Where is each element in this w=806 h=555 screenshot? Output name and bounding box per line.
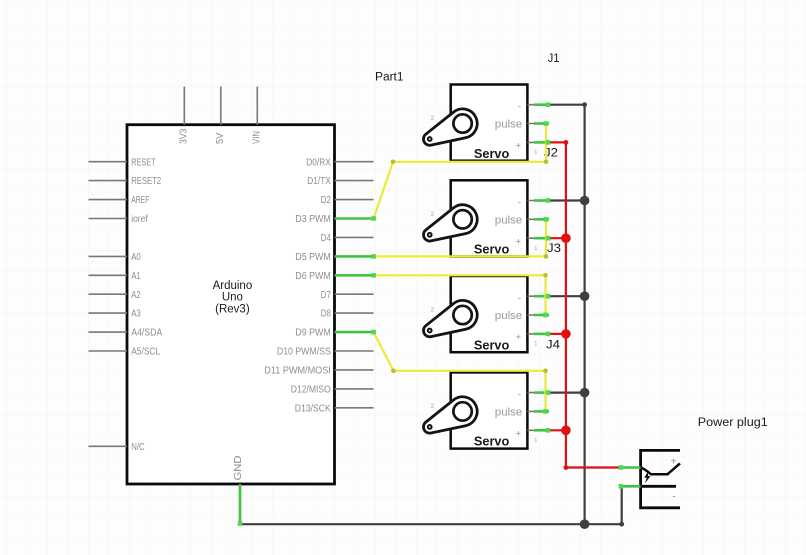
label Arduino Uno (Rev3) [213, 280, 253, 315]
svg-text:N/C: N/C [131, 442, 145, 453]
pin A2 [89, 290, 142, 301]
pin D7 [321, 290, 374, 301]
pin D8 [321, 309, 374, 320]
pin D13/SCK [295, 403, 374, 414]
svg-text:D10 PWM/SS: D10 PWM/SS [277, 347, 331, 358]
svg-text:D11 PWM/MOSI: D11 PWM/MOSI [264, 366, 331, 377]
svg-text:Servo: Servo [474, 435, 510, 449]
servo J3 body [451, 276, 528, 352]
svg-text:Servo: Servo [474, 243, 510, 257]
wire green connected stub servo1 minus [534, 103, 549, 106]
pin RESET2 [89, 176, 162, 187]
servo Part1 (J1) pin pulse [527, 123, 549, 125]
wire dark servo2 minus to bus [549, 199, 584, 201]
endpoint D5 [371, 254, 376, 259]
endpoint servo2 minus [546, 198, 551, 203]
svg-text:2: 2 [431, 115, 435, 122]
servo J4 [423, 372, 549, 448]
junction yellow bend D3 wire [391, 160, 396, 165]
endpoint servo3 minus [546, 294, 551, 299]
svg-text:+: + [515, 429, 521, 440]
svg-text:+: + [515, 332, 521, 343]
servo J2 [423, 180, 549, 256]
wire yellow D3 PWM to servo1 pulse [374, 124, 546, 219]
svg-text:5V: 5V [215, 133, 226, 144]
junction dark node GND bus [580, 519, 590, 529]
svg-text:D7: D7 [321, 290, 331, 301]
wire green connected stub servo2 minus [534, 199, 549, 202]
wire green connected stub servo2 plus [534, 237, 549, 240]
svg-text:1: 1 [534, 437, 538, 444]
wire yellow D6 PWM to servo3 pulse [374, 275, 546, 315]
junction dark corner servo1 minus [582, 102, 587, 107]
svg-text:A5/SCL: A5/SCL [131, 347, 160, 358]
svg-text:2: 2 [431, 403, 435, 410]
svg-text:-: - [518, 293, 521, 304]
svg-text:J1: J1 [548, 53, 560, 65]
servo J4 pin pulse [527, 410, 549, 412]
svg-text:D8: D8 [321, 309, 331, 320]
endpoint servo2 pulse [544, 217, 549, 222]
svg-text:RESET: RESET [131, 157, 156, 168]
svg-text:Part1: Part1 [375, 71, 404, 83]
svg-text:A2: A2 [131, 290, 141, 301]
wire yellow D9 PWM to servo4 pulse [374, 332, 546, 411]
svg-text:RESET2: RESET2 [131, 176, 161, 187]
pin D0/RX [306, 157, 373, 168]
servo J2 horn [423, 205, 477, 241]
svg-text:D0/RX: D0/RX [306, 157, 331, 168]
servo J3 pin + (plus) [527, 333, 549, 335]
endpoint servo4 minus [546, 390, 551, 395]
power plug J5 Power plug1 [641, 450, 680, 507]
svg-text:-: - [518, 389, 521, 400]
svg-text:1: 1 [534, 245, 538, 252]
power plug + contact [641, 463, 680, 474]
wire dark riser to plug minus [621, 486, 623, 524]
svg-text:Servo: Servo [474, 338, 510, 352]
svg-text:+: + [515, 141, 521, 152]
power plug - contact [641, 485, 676, 488]
junction red node servo2 plus [561, 233, 571, 243]
servo J3 horn [423, 300, 477, 336]
wire green connected stub servo3 minus [534, 295, 549, 298]
wire red servo4 plus to bus [549, 429, 566, 431]
pin D11 PWM/MOSI [264, 366, 373, 377]
pin VIN [252, 87, 263, 144]
junction red corner to plug [564, 465, 569, 470]
wire red plus bus vertical [565, 142, 567, 467]
wire green connected stub servo2 pulse [534, 218, 549, 221]
servo J3 [423, 276, 549, 352]
pin D12/MISO [291, 385, 374, 396]
svg-text:+: + [515, 236, 521, 247]
svg-text:D12/MISO: D12/MISO [291, 385, 331, 396]
junction yellow bend servo4 pulse corner [543, 369, 548, 374]
junction dark corner plug riser [619, 522, 624, 527]
servo J3 pin pulse [527, 314, 549, 316]
svg-text:A4/SDA: A4/SDA [131, 328, 162, 339]
wire green connected stub servo4 plus [534, 429, 549, 432]
pin D2 [321, 195, 374, 206]
pin D1/TX [307, 176, 373, 187]
endpoint servo4 plus [546, 428, 551, 433]
svg-text:D4: D4 [321, 233, 331, 244]
pin GND [233, 456, 244, 525]
junction red node servo4 plus [561, 426, 571, 436]
Arduino Uno U1 [89, 87, 374, 525]
pin D9 PWM [295, 328, 373, 339]
wire green connected stub D3 PWM [335, 217, 374, 220]
servo Part1 (J1) horn [423, 109, 477, 145]
pin D5 PWM [295, 252, 373, 263]
svg-text:2: 2 [431, 211, 435, 218]
endpoint servo1 minus [546, 102, 551, 107]
junction yellow bend servo1 pulse corner [544, 160, 549, 165]
endpoint servo2 plus [546, 236, 551, 241]
pin A1 [89, 271, 142, 282]
svg-text:AREF: AREF [131, 195, 149, 206]
wire green connected stub servo4 pulse [534, 410, 549, 413]
wire green connected stub plug plus [621, 466, 641, 469]
svg-text:J3: J3 [547, 243, 561, 255]
servo J4 horn [423, 397, 477, 433]
servo J2 pin pulse [527, 218, 549, 220]
svg-text:-: - [673, 492, 676, 503]
svg-text:1: 1 [534, 341, 538, 348]
svg-text:D5 PWM: D5 PWM [295, 252, 331, 263]
endpoint plug plus [619, 465, 624, 470]
svg-text:pulse: pulse [495, 119, 523, 131]
wire dark minus bus vertical [583, 105, 585, 525]
servo Part1 (J1) pin + (plus) [527, 141, 549, 143]
svg-text:Servo: Servo [474, 147, 510, 161]
junction red corner servo1 plus [564, 140, 569, 145]
svg-text:A1: A1 [131, 271, 141, 282]
wire dark servo1 minus to bus [549, 104, 584, 106]
svg-text:Arduino: Arduino [213, 280, 253, 292]
svg-text:D9 PWM: D9 PWM [295, 328, 331, 339]
svg-text:pulse: pulse [495, 214, 523, 226]
pin AREF [89, 195, 150, 206]
svg-text:A3: A3 [131, 309, 141, 320]
wire green connected stub D5 PWM [335, 255, 374, 258]
endpoint plug minus [619, 484, 624, 489]
wire green connected stub servo3 plus [534, 333, 549, 336]
junction yellow bend servo2 pulse corner [544, 254, 549, 259]
svg-text:pulse: pulse [495, 407, 523, 419]
endpoint servo1 pulse [544, 121, 549, 126]
wire green connected stub servo1 pulse [534, 122, 549, 125]
svg-text:3V3: 3V3 [179, 128, 190, 144]
power plug body [641, 450, 680, 507]
svg-text:Uno: Uno [222, 292, 243, 304]
wire green connected stub servo4 minus [534, 391, 549, 394]
svg-text:(Rev3): (Rev3) [215, 303, 250, 315]
power plug lightning bolt [644, 471, 650, 484]
pin RESET [89, 157, 156, 168]
servo J4 body [451, 372, 528, 448]
wire red to plug plus [566, 466, 621, 468]
junction dark node servo2 minus [580, 196, 590, 206]
pin A0 [89, 252, 142, 263]
junction yellow bend servo3 pulse corner [543, 273, 548, 278]
servo J2 pin - (minus) [527, 200, 549, 202]
servo J2 body [451, 180, 528, 256]
wire red servo1 plus to bus [549, 141, 566, 143]
svg-text:pulse: pulse [495, 310, 523, 322]
endpoint D6 [371, 273, 376, 278]
wire dark GND horizontal [240, 523, 622, 525]
servo Part1 (J1) body [451, 85, 528, 161]
pin ioref [89, 214, 148, 225]
wire green connected stub D6 PWM [335, 274, 374, 277]
svg-text:-: - [518, 197, 521, 208]
junction yellow bend D9 wire [391, 369, 396, 374]
svg-text:D1/TX: D1/TX [307, 176, 331, 187]
servo J2 pin + (plus) [527, 237, 549, 239]
servo J4 pin + (plus) [527, 429, 549, 431]
endpoint D3 [371, 216, 376, 221]
servo Part1 (J1) [423, 85, 549, 161]
svg-text:2: 2 [431, 307, 435, 314]
svg-text:+: + [671, 456, 677, 467]
svg-text:GND: GND [233, 456, 244, 481]
wire red servo2 plus to bus [549, 237, 566, 239]
wire green connected stub GND [239, 484, 242, 524]
svg-text:D3 PWM: D3 PWM [295, 214, 331, 225]
endpoint servo1 plus [546, 140, 551, 145]
svg-text:ioref: ioref [131, 214, 148, 225]
endpoint servo4 pulse [543, 409, 548, 414]
servo Part1 (J1) pin - (minus) [527, 104, 549, 106]
svg-text:D13/SCK: D13/SCK [295, 403, 331, 414]
svg-text:D2: D2 [321, 195, 331, 206]
pin N/C [89, 442, 145, 453]
pin 5V [215, 87, 226, 144]
svg-text:-: - [518, 102, 521, 113]
pin A4/SDA [89, 328, 163, 339]
svg-text:J4: J4 [546, 339, 561, 351]
wire dark servo4 minus to bus [549, 392, 584, 394]
pin A5/SCL [89, 347, 161, 358]
pin D6 PWM [295, 271, 373, 282]
junction dark node servo3 minus [580, 291, 590, 301]
endpoint GND corner [238, 521, 243, 526]
pin D4 [321, 233, 374, 244]
svg-text:A0: A0 [131, 252, 141, 263]
wire red servo3 plus to bus [549, 333, 566, 335]
endpoint servo3 pulse [543, 313, 548, 318]
wire dark servo3 minus to bus [549, 295, 584, 297]
wire yellow D5 PWM to servo2 pulse [374, 219, 546, 256]
svg-text:VIN: VIN [252, 131, 263, 144]
pin A3 [89, 309, 142, 320]
endpoint D9 [371, 330, 376, 335]
wire green connected stub servo3 pulse [534, 314, 549, 317]
svg-text:Power plug1: Power plug1 [698, 417, 768, 429]
endpoint servo3 plus [546, 332, 551, 337]
svg-text:1: 1 [534, 149, 538, 156]
junction dark node servo4 minus [580, 388, 590, 398]
Arduino Uno body [127, 125, 335, 484]
svg-text:D6 PWM: D6 PWM [295, 271, 331, 282]
junction red node servo3 plus [561, 329, 571, 339]
wire green connected stub plug minus [621, 485, 641, 488]
pin D3 PWM [295, 214, 373, 225]
pin D10 PWM/SS [277, 347, 374, 358]
wire green connected stub D9 PWM [335, 331, 374, 334]
servo J3 pin - (minus) [527, 295, 549, 297]
wire green connected stub servo1 plus [534, 141, 549, 144]
servo J4 pin - (minus) [527, 392, 549, 394]
pin 3V3 [179, 87, 190, 144]
